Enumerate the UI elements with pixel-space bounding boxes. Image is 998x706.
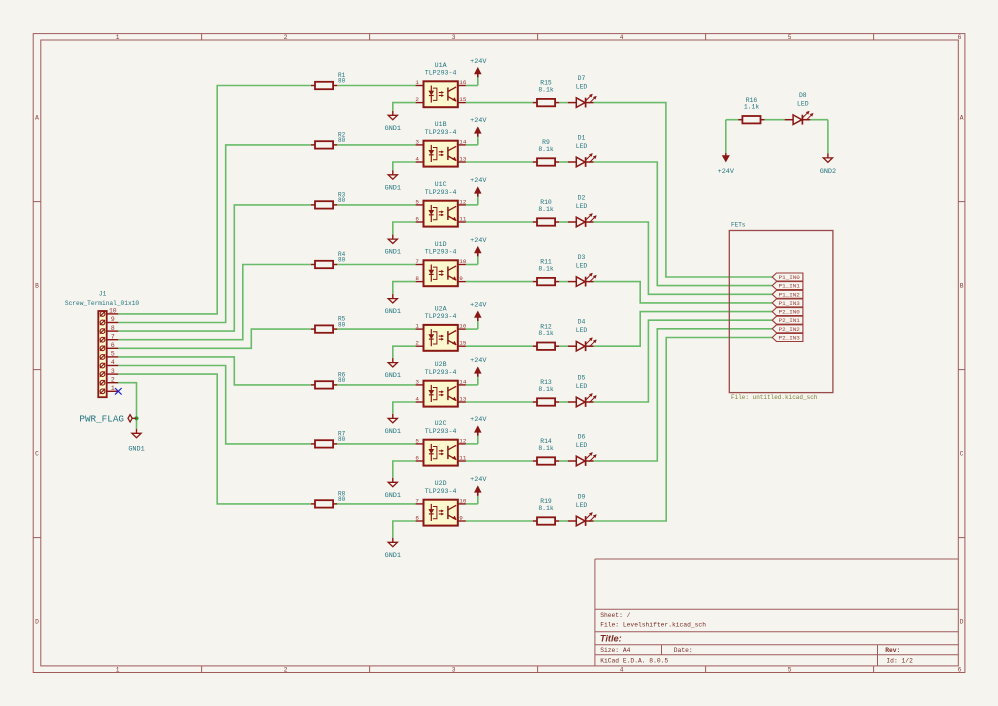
svg-text:D5: D5 [578,375,586,382]
svg-text:PWR_FLAG: PWR_FLAG [79,414,124,425]
svg-text:3: 3 [452,666,456,673]
svg-text:1: 1 [415,79,419,86]
svg-text:5: 5 [788,666,792,673]
svg-text:8: 8 [111,325,115,332]
svg-text:C: C [35,451,39,458]
svg-text:B: B [35,283,39,290]
svg-text:80: 80 [338,496,346,503]
svg-text:8.1k: 8.1k [538,330,554,337]
svg-text:LED: LED [576,262,588,269]
svg-text:8.1k: 8.1k [538,445,554,452]
svg-text:P1_IN3: P1_IN3 [779,300,801,307]
svg-text:8.1k: 8.1k [538,386,554,393]
svg-text:4: 4 [620,34,624,41]
svg-text:Rev:: Rev: [885,647,900,654]
svg-text:B: B [960,283,964,290]
svg-text:Date:: Date: [674,647,693,654]
svg-text:7: 7 [111,333,115,340]
svg-text:8: 8 [415,275,419,282]
svg-text:3: 3 [415,138,419,145]
svg-text:LED: LED [576,383,588,390]
svg-text:LED: LED [576,442,588,449]
svg-text:GND1: GND1 [385,428,401,436]
svg-text:16: 16 [459,323,467,330]
svg-text:U1C: U1C [435,181,447,188]
svg-text:15: 15 [459,96,467,103]
svg-text:P1_IN1: P1_IN1 [779,283,801,290]
svg-text:TLP293-4: TLP293-4 [425,189,457,196]
svg-text:D: D [960,619,964,626]
svg-text:U1A: U1A [435,62,447,69]
svg-text:File: Levelshifter.kicad_sch: File: Levelshifter.kicad_sch [600,622,706,629]
svg-text:+24V: +24V [470,301,487,309]
svg-text:D2: D2 [578,195,586,202]
svg-text:D9: D9 [578,494,586,501]
svg-text:U2A: U2A [435,305,447,312]
svg-text:3: 3 [452,34,456,41]
svg-text:5: 5 [111,351,115,358]
svg-text:Sheet: /: Sheet: / [600,612,630,619]
svg-text:Size: A4: Size: A4 [600,647,630,654]
svg-text:1: 1 [116,666,120,673]
svg-text:6: 6 [958,34,962,41]
svg-text:P2_IN3: P2_IN3 [779,335,801,342]
svg-text:U1D: U1D [435,241,447,248]
svg-text:+24V: +24V [470,237,487,245]
svg-text:80: 80 [338,137,346,144]
svg-text:1: 1 [116,34,120,41]
svg-text:U2B: U2B [435,361,447,368]
svg-text:GND1: GND1 [385,372,401,380]
svg-text:3: 3 [415,378,419,385]
svg-text:P1_IN0: P1_IN0 [779,274,801,281]
svg-text:11: 11 [459,454,467,461]
svg-text:5: 5 [415,437,419,444]
svg-text:6: 6 [111,342,115,349]
svg-text:4: 4 [620,666,624,673]
svg-text:+24V: +24V [470,357,487,365]
svg-text:+24V: +24V [470,117,487,125]
svg-text:5: 5 [788,34,792,41]
svg-text:2: 2 [415,340,419,347]
svg-text:D8: D8 [799,92,807,99]
svg-text:8.1k: 8.1k [538,206,554,213]
svg-text:TLP293-4: TLP293-4 [425,129,457,136]
svg-text:Screw_Terminal_01x10: Screw_Terminal_01x10 [65,300,140,307]
svg-text:GND1: GND1 [385,125,401,133]
svg-text:P1_IN2: P1_IN2 [779,291,801,298]
svg-text:7: 7 [415,258,419,265]
svg-text:GND1: GND1 [385,552,401,560]
svg-text:12: 12 [459,198,467,205]
svg-text:P2_IN2: P2_IN2 [779,326,801,333]
svg-text:+24V: +24V [718,168,735,176]
svg-text:6: 6 [958,666,962,673]
svg-text:U2D: U2D [435,480,447,487]
svg-text:A: A [960,115,964,122]
svg-text:TLP293-4: TLP293-4 [425,313,457,320]
svg-text:2: 2 [415,96,419,103]
svg-text:80: 80 [338,321,346,328]
svg-text:80: 80 [338,78,346,85]
svg-text:10: 10 [459,258,467,265]
svg-text:8.1k: 8.1k [538,87,554,94]
svg-text:13: 13 [459,155,467,162]
svg-text:+24V: +24V [470,416,487,424]
svg-text:GND2: GND2 [820,168,836,176]
svg-text:10: 10 [459,497,467,504]
svg-text:TLP293-4: TLP293-4 [425,428,457,435]
svg-text:GND1: GND1 [385,492,401,500]
svg-text:8.1k: 8.1k [538,266,554,273]
svg-text:8.1k: 8.1k [538,146,554,153]
svg-text:D: D [35,619,39,626]
svg-text:15: 15 [459,340,467,347]
svg-text:Id: 1/2: Id: 1/2 [886,657,913,664]
svg-text:LED: LED [576,502,588,509]
svg-text:A: A [35,115,39,122]
svg-text:LED: LED [797,101,809,108]
svg-text:TLP293-4: TLP293-4 [425,69,457,76]
svg-text:6: 6 [415,454,419,461]
svg-text:1: 1 [415,323,419,330]
svg-text:8.1k: 8.1k [538,505,554,512]
svg-text:80: 80 [338,377,346,384]
svg-text:TLP293-4: TLP293-4 [425,488,457,495]
svg-text:9: 9 [459,275,463,282]
svg-text:TLP293-4: TLP293-4 [425,369,457,376]
svg-text:13: 13 [459,395,467,402]
svg-text:KiCad E.D.A. 8.0.5: KiCad E.D.A. 8.0.5 [600,657,668,664]
svg-text:GND1: GND1 [385,184,401,192]
svg-text:14: 14 [459,378,467,385]
svg-text:GND1: GND1 [385,308,401,316]
svg-text:+24V: +24V [470,476,487,484]
svg-text:U2C: U2C [435,420,447,427]
svg-text:LED: LED [576,143,588,150]
svg-text:GND1: GND1 [128,445,144,453]
svg-text:10: 10 [109,308,117,315]
svg-text:1: 1 [111,385,115,392]
svg-text:P2_IN0: P2_IN0 [779,309,801,316]
svg-text:4: 4 [111,359,115,366]
svg-text:14: 14 [459,138,467,145]
svg-text:D1: D1 [578,135,586,142]
svg-text:7: 7 [415,497,419,504]
svg-text:LED: LED [576,83,588,90]
svg-text:16: 16 [459,79,467,86]
svg-text:12: 12 [459,437,467,444]
svg-text:TLP293-4: TLP293-4 [425,248,457,255]
svg-text:2: 2 [284,34,288,41]
svg-text:5: 5 [415,198,419,205]
svg-text:80: 80 [338,197,346,204]
svg-text:Title:: Title: [600,634,622,644]
svg-text:3: 3 [111,368,115,375]
svg-text:C: C [960,451,964,458]
svg-text:2: 2 [284,666,288,673]
svg-text:FETs: FETs [731,222,746,229]
svg-text:80: 80 [338,257,346,264]
svg-text:+24V: +24V [470,58,487,66]
svg-text:LED: LED [576,203,588,210]
svg-text:2: 2 [111,376,115,383]
svg-text:9: 9 [459,514,463,521]
svg-text:P2_IN1: P2_IN1 [779,317,801,324]
svg-text:4: 4 [415,395,419,402]
svg-text:File: untitled.kicad_sch: File: untitled.kicad_sch [731,394,818,401]
svg-text:11: 11 [459,215,467,222]
svg-text:6: 6 [415,215,419,222]
svg-text:4: 4 [415,155,419,162]
svg-text:D4: D4 [578,319,586,326]
svg-text:J1: J1 [99,290,107,297]
svg-text:LED: LED [576,327,588,334]
svg-text:D3: D3 [578,254,586,261]
svg-text:D6: D6 [578,434,586,441]
svg-text:GND1: GND1 [385,249,401,257]
svg-text:9: 9 [111,316,115,323]
svg-text:8: 8 [415,514,419,521]
svg-text:1.1k: 1.1k [744,104,760,111]
svg-text:U1B: U1B [435,121,447,128]
svg-text:80: 80 [338,436,346,443]
svg-text:+24V: +24V [470,177,487,185]
svg-text:D7: D7 [578,75,586,82]
